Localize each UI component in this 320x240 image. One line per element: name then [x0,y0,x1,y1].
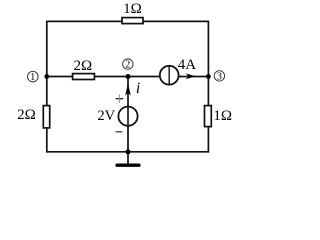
junction dot node 3 [206,74,211,79]
junction dot node 1 [44,74,49,79]
svg-text:2: 2 [125,60,130,71]
voltage source inner wire [127,107,129,126]
wire node2 down to bottom [127,77,129,152]
junction dot bottom [126,149,131,154]
svg-text:3: 3 [217,71,222,82]
svg-text:1Ω: 1Ω [123,1,142,17]
svg-text:2Ω: 2Ω [17,107,36,123]
svg-text:2Ω: 2Ω [73,58,92,74]
resistor R middle 2ohm [73,74,95,80]
resistor R right 1ohm [205,106,212,127]
junction dot node 2 [126,74,131,79]
svg-text:i: i [136,80,140,97]
wire left [46,21,48,153]
wire top [47,20,209,22]
node label 1 [28,71,39,83]
svg-text:1: 1 [30,72,35,83]
svg-text:1Ω: 1Ω [213,108,232,124]
label minus [116,131,123,133]
label plus [116,94,124,103]
node label 3 [214,71,224,83]
node label 2 [123,59,133,71]
wire middle node1-node3 [47,76,209,78]
svg-text:4A: 4A [178,57,197,73]
wire ground stub [127,152,129,165]
voltage source 2V circle [118,107,137,126]
current source 4A circle [160,66,179,85]
wire bottom [47,151,209,153]
ground [116,164,141,167]
resistor R top 1ohm [122,18,143,24]
resistor R left 2ohm [43,106,49,128]
arrow current source output (right) [186,73,196,79]
arrow current i (up) [125,84,131,96]
wire right [207,21,209,153]
svg-text:2V: 2V [97,108,115,124]
current source inner bar [168,66,170,84]
